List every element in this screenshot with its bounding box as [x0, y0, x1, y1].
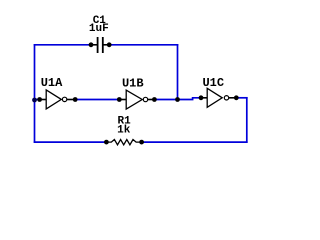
- wire top horizontal left of C1: [34, 44, 91, 46]
- node junction where top-right vertical meets middle wire: [175, 97, 180, 102]
- op-amp U1C (inverter): [199, 88, 239, 107]
- wire bottom horizontal left of R1: [34, 141, 107, 143]
- svg-text:1uF: 1uF: [89, 23, 109, 35]
- resistor R1: [104, 140, 144, 145]
- wire top horizontal right of C1: [109, 44, 178, 46]
- svg-text:1k: 1k: [117, 125, 131, 137]
- wire right vertical: [246, 97, 248, 143]
- wire right-top vertical: [177, 44, 179, 100]
- svg-text:U1A: U1A: [41, 76, 63, 90]
- op-amp U1A (inverter): [37, 90, 77, 109]
- wire left vertical: [34, 44, 36, 143]
- svg-text:U1C: U1C: [202, 76, 224, 90]
- wire middle row: U1A output dot to U1B input dot: [75, 99, 119, 101]
- node junction on left vertical wire: [32, 98, 37, 103]
- op-amp U1B (inverter): [117, 90, 157, 109]
- svg-text:U1B: U1B: [122, 76, 144, 90]
- wire middle row: U1C output dot to right corner: [236, 97, 247, 99]
- wire middle row: left vertical to U1A input dot: [35, 99, 40, 101]
- capacitor C1: [89, 37, 112, 53]
- wire bottom horizontal right of R1: [142, 141, 248, 143]
- wire middle row: U1B output dot to jog to U1C input dot: [154, 98, 201, 100]
